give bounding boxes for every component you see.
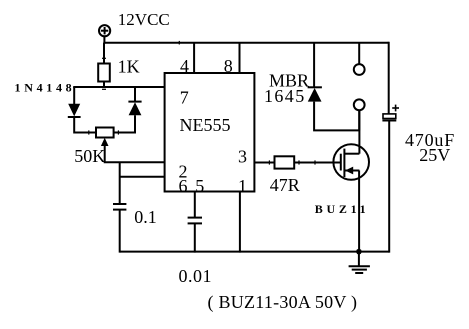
wire rail to upper post bbox=[358, 43, 360, 64]
svg-text:12VCC: 12VCC bbox=[118, 10, 170, 29]
wire right diode to pot bbox=[114, 115, 135, 132]
wire 0.01 cap to ground rail bbox=[194, 223, 196, 252]
wire top supply rail bbox=[103, 42, 388, 44]
wire right diode drop bbox=[134, 87, 136, 102]
op-amp U1 NE555 body bbox=[165, 73, 255, 192]
svg-text:47R: 47R bbox=[270, 175, 300, 195]
capacitor 470uF polarized bbox=[382, 105, 399, 121]
svg-text:8: 8 bbox=[224, 56, 233, 76]
pin tick R1 top bbox=[102, 57, 106, 59]
wire 1K top lead bbox=[103, 43, 105, 63]
wire pin 1 to ground rail bbox=[239, 192, 241, 253]
capacitor 0.01 bbox=[188, 218, 202, 224]
wire 470uF to ground rail bbox=[388, 121, 390, 253]
potentiometer wiper arrow bbox=[101, 138, 109, 163]
ground bbox=[349, 252, 370, 273]
junction dot source-ground bbox=[356, 249, 362, 255]
wire pin 4 stub bbox=[193, 43, 195, 73]
diode D3 MBR1645 (points up) bbox=[308, 87, 322, 101]
pin tick R2 left bbox=[268, 160, 270, 164]
svg-text:( BUZ11-30A 50V ): ( BUZ11-30A 50V ) bbox=[208, 292, 358, 313]
wire source down bbox=[358, 171, 360, 252]
wire pin 6 link bbox=[120, 176, 165, 178]
svg-text:1645: 1645 bbox=[264, 86, 306, 106]
svg-text:5: 5 bbox=[195, 176, 204, 196]
terminal post upper bbox=[354, 64, 365, 75]
wire wiper to pin 2 bbox=[104, 161, 165, 163]
svg-text:4: 4 bbox=[180, 56, 189, 76]
potentiometer 50K body bbox=[96, 128, 114, 138]
wire drop to 0.1 cap bbox=[119, 162, 121, 204]
wire drain up bbox=[358, 110, 360, 154]
wire MBR cathode drop bbox=[313, 43, 315, 88]
wire lower post to drain node bbox=[358, 110, 360, 130]
pin tick pot right bbox=[117, 130, 119, 134]
capacitor 0.1 bbox=[113, 204, 126, 210]
svg-text:BUZ11: BUZ11 bbox=[315, 202, 370, 216]
resistor 47R bbox=[275, 156, 295, 168]
svg-text:1: 1 bbox=[238, 176, 247, 196]
resistor 1K bbox=[98, 64, 110, 82]
pin tick pot left bbox=[88, 130, 90, 134]
wire 12VCC stem bbox=[103, 36, 105, 43]
wire pin 8 stub bbox=[239, 43, 241, 73]
svg-text:1N4148: 1N4148 bbox=[15, 81, 76, 95]
svg-text:0.01: 0.01 bbox=[179, 266, 213, 286]
wire 1K bottom lead bbox=[103, 81, 105, 88]
wire bottom ground rail bbox=[120, 251, 390, 253]
pin tick R2 right bbox=[298, 160, 300, 164]
wire pin 3 output bbox=[254, 162, 274, 164]
transistor Q1 BUZ11 mosfet bbox=[333, 144, 369, 180]
wire diode top bus bbox=[73, 86, 164, 88]
svg-text:6: 6 bbox=[179, 176, 188, 196]
junction tick on rail bbox=[178, 41, 180, 45]
svg-text:50K: 50K bbox=[74, 146, 105, 166]
wire pin 5 stub bbox=[194, 192, 196, 218]
svg-text:NE555: NE555 bbox=[180, 115, 231, 135]
wire 0.1 cap to ground rail bbox=[119, 210, 121, 253]
wire left diode cathode drop bbox=[73, 87, 75, 104]
diode D1 1N4148 (points down) bbox=[68, 104, 81, 117]
pin tick gate wire bbox=[314, 160, 316, 164]
wire left diode to pot bbox=[74, 117, 96, 133]
svg-text:0.1: 0.1 bbox=[134, 207, 157, 227]
svg-text:7: 7 bbox=[180, 87, 189, 107]
svg-text:1K: 1K bbox=[118, 56, 140, 76]
diode D2 1N4148 (points up) bbox=[128, 102, 141, 116]
wire 47R to gate bbox=[294, 162, 341, 164]
pin tick R1 bottom bbox=[102, 88, 106, 90]
wire right branch down to cap bbox=[388, 42, 390, 115]
svg-text:3: 3 bbox=[238, 146, 247, 166]
svg-text:25V: 25V bbox=[419, 145, 450, 165]
power symbol +12V terminal bbox=[99, 25, 110, 36]
terminal post lower bbox=[354, 99, 365, 110]
wire MBR anode to drain node bbox=[314, 102, 359, 131]
